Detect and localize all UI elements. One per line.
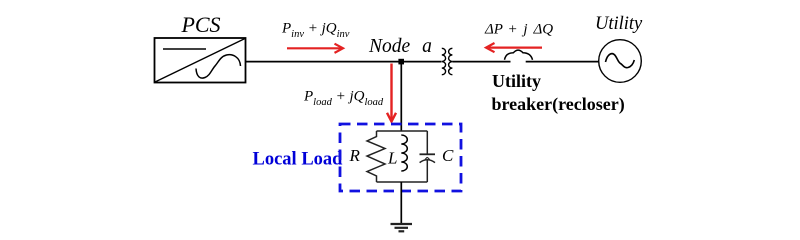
ground [391, 224, 413, 231]
wire transformer to breaker [452, 61, 510, 63]
svg-text:R: R [349, 146, 361, 165]
wire load to ground [400, 182, 402, 224]
svg-text:Nodea: Nodea [368, 36, 432, 57]
arrow delta flow (red, left) [486, 43, 542, 52]
inductor L [401, 135, 407, 171]
label Pinv + jQinv [281, 21, 350, 41]
resistor R [367, 131, 385, 182]
wire node a down to load [400, 62, 402, 131]
transformer T1 secondary winding [449, 48, 453, 74]
label C [442, 146, 454, 165]
svg-text:breaker(recloser): breaker(recloser) [492, 94, 625, 115]
svg-text:C: C [442, 146, 454, 165]
local load boundary (blue dashed box) [340, 124, 461, 191]
wire breaker to utility [526, 61, 599, 63]
label Node a [368, 36, 432, 57]
svg-text:L: L [387, 149, 397, 168]
wire PCS to transformer [246, 61, 442, 63]
svg-text:Local Load: Local Load [253, 150, 344, 170]
label L [387, 149, 397, 168]
label Local Load (blue) [253, 150, 344, 170]
arrow Pload flow (red, down) [387, 64, 396, 122]
transformer T1 primary winding [442, 48, 446, 74]
node a junction dot [398, 59, 404, 65]
breaker (recloser) arc [505, 50, 533, 60]
label Pload + jQload [303, 89, 384, 109]
label PCS [180, 12, 220, 37]
label Utility breaker(recloser) [492, 71, 625, 115]
capacitor C [420, 131, 436, 182]
node: load bottom rail [377, 181, 428, 183]
arrow Pinv flow (red, right) [287, 44, 343, 53]
svg-text:ΔP + jΔQ: ΔP + jΔQ [484, 21, 553, 37]
label delta P + j delta Q [484, 21, 553, 37]
AC source Utility [599, 40, 642, 83]
svg-text:Utility: Utility [595, 14, 643, 34]
inverter PCS box [155, 38, 246, 83]
label Utility [595, 14, 643, 34]
label R [349, 146, 361, 165]
svg-text:PCS: PCS [180, 12, 220, 37]
svg-text:Utility: Utility [492, 71, 541, 91]
node: load top rail [377, 130, 428, 132]
